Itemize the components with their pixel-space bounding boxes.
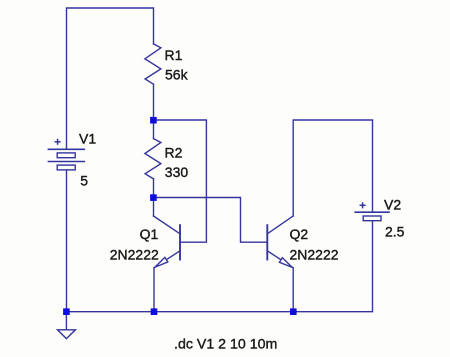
svg-text:V1: V1 (79, 130, 96, 146)
svg-text:R2: R2 (165, 144, 183, 160)
battery V1 plate top (48, 148, 84, 150)
svg-text:2N2222: 2N2222 (110, 246, 159, 262)
transistor Q2 emitter diagonal (267, 251, 293, 268)
battery V1 plus sign (55, 140, 60, 145)
resistor R2 (145, 139, 161, 179)
junction node B (150, 194, 157, 201)
svg-text:Q2: Q2 (290, 226, 309, 242)
svg-text:2N2222: 2N2222 (290, 246, 339, 262)
transistor Q2 base bar (266, 225, 268, 259)
wire V1 bottom to ground junction (66, 170, 68, 312)
ground symbol (58, 330, 76, 339)
battery V2 cell box (363, 216, 381, 221)
svg-text:5: 5 (80, 173, 88, 189)
transistor Q1 emitter arrow (155, 257, 168, 267)
wire node B to Q1 collector (153, 198, 155, 217)
svg-text:Q1: Q1 (140, 226, 159, 242)
ground stem (65, 312, 67, 330)
transistor Q1 emitter diagonal (154, 251, 180, 268)
battery V1 cell box 1 (57, 153, 75, 158)
wire Q2 emitter to ground rail (292, 268, 294, 312)
svg-text:R1: R1 (165, 47, 183, 63)
battery V2 plate (355, 211, 389, 213)
battery V1 plate middle (48, 161, 84, 163)
transistor Q2 collector diagonal (267, 216, 293, 234)
junction Q2 emitter (290, 308, 297, 315)
wire V2 bottom to ground rail (66, 221, 372, 312)
battery V1 cell box 2 (57, 165, 75, 170)
transistor Q2 emitter arrow (279, 258, 292, 268)
svg-text:V2: V2 (384, 197, 401, 213)
svg-text:2.5: 2.5 (385, 224, 405, 240)
wire R1 bottom to node A (153, 84, 155, 120)
junction ground (63, 308, 70, 315)
wire V1 top to top rail to R1 top (67, 8, 154, 149)
junction node A (150, 117, 157, 124)
svg-text:.dc V1 2 10 10m: .dc V1 2 10 10m (174, 336, 277, 352)
resistor R1 (145, 44, 161, 84)
transistor Q1 base bar (179, 225, 181, 259)
wire node A to R2 top (153, 120, 155, 139)
wire Q2 collector to V2 top (293, 120, 372, 216)
wire node B to Q2 base (153, 198, 267, 243)
wire node A to Q1 base (153, 120, 206, 242)
battery V2 plus sign (360, 203, 365, 208)
wire R2 bottom to node B (153, 179, 155, 198)
transistor Q1 collector diagonal (154, 216, 181, 234)
svg-text:330: 330 (165, 164, 189, 180)
svg-text:56k: 56k (165, 67, 189, 83)
junction Q1 emitter (151, 308, 158, 315)
wire Q1 emitter to ground rail (153, 268, 155, 312)
